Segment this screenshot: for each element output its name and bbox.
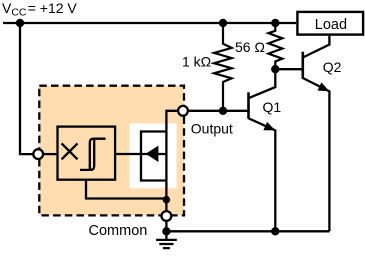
node: Vcc junction dot — [16, 19, 24, 27]
svg-text:VCC = +12 V: VCC = +12 V — [2, 0, 77, 18]
transistor Q2 emitter arrow — [318, 82, 330, 91]
svg-text:Output: Output — [191, 121, 233, 137]
transistor Q2 emitter — [303, 78, 330, 231]
wire: input pin to multiplier box — [44, 153, 58, 155]
terminal circle: Common pin — [162, 211, 172, 221]
node: R1 top junction — [219, 19, 227, 27]
node: internal ground junction dot — [163, 196, 171, 204]
multiplier x symbol — [62, 143, 78, 159]
transistor Q1 collector — [249, 69, 276, 98]
sensor IC dashed box — [39, 86, 184, 216]
Schmitt hysteresis symbol — [80, 139, 106, 170]
multiplier/Schmitt box U1 — [58, 127, 116, 180]
ground symbol — [156, 231, 177, 248]
svg-text:56 Ω: 56 Ω — [235, 39, 265, 55]
output FET body bars — [141, 132, 166, 181]
svg-text:Common: Common — [89, 223, 148, 239]
wire: Vcc top rail — [3, 22, 296, 24]
wire: left drop from Vcc rail to sensor input — [20, 23, 33, 154]
svg-text:Load: Load — [315, 17, 347, 33]
transistor Q1 base bar — [247, 92, 250, 118]
node: ground junction dot — [162, 227, 170, 235]
svg-text:Q1: Q1 — [263, 99, 282, 115]
wire: FET drain to Output terminal — [166, 111, 177, 181]
svg-text:1 kΩ: 1 kΩ — [182, 54, 211, 70]
node: R2 top junction — [271, 19, 279, 27]
transistor Q2 base bar — [301, 52, 304, 79]
wire: sensor internal ground run — [86, 180, 166, 199]
transistor Q2 collector — [303, 36, 330, 58]
terminal circle: sensor input pin — [33, 149, 43, 159]
wire: FET source to Common terminal — [165, 181, 167, 211]
node: R1 bottom / Output node junction — [219, 107, 227, 115]
svg-text:Q2: Q2 — [323, 59, 342, 75]
wire: Common pin to ground rail — [165, 221, 167, 231]
resistor R2 56 Ohm — [268, 23, 282, 69]
wire: bottom ground rail — [166, 230, 329, 232]
terminal circle: Output pin — [178, 106, 188, 116]
transistor Q1 emitter — [249, 118, 276, 231]
resistor R1 1 kOhm — [214, 23, 232, 111]
node: Q1 emitter / ground rail junction — [271, 227, 279, 235]
node: R2 bottom / Q1 collector / Q2 base junction — [271, 65, 279, 73]
transistor Q1 emitter arrow — [263, 122, 275, 130]
wire: Schmitt output to FET gate — [115, 153, 165, 155]
white backdrop behind output FET — [130, 124, 177, 189]
wire: Output terminal to Q1 base — [189, 110, 249, 112]
load box — [297, 12, 363, 35]
output FET arrow (body diode) — [146, 146, 159, 162]
wire: junction to Q2 base — [275, 68, 303, 70]
